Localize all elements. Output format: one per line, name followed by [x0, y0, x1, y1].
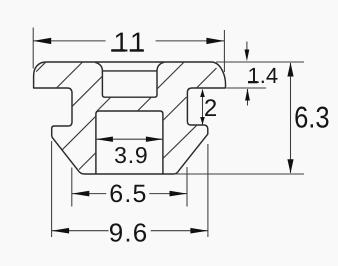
dimension 11: dimension line segments: [33, 40, 105, 42]
svg-text:6.5: 6.5: [109, 180, 147, 208]
svg-text:2: 2: [204, 95, 217, 122]
dimension 6.5: dimension line and arrowheads: [72, 193, 106, 195]
svg-text:1.4: 1.4: [248, 63, 279, 88]
dimension 6.3: bottom extension line (bottom surface level): [175, 173, 305, 175]
svg-text:9.6: 9.6: [109, 218, 149, 248]
dimension 2: [202, 90, 204, 125]
svg-text:11: 11: [114, 27, 149, 58]
dimension 6.5: extension lines: [71, 168, 73, 207]
dimension 11: right extension line: [223, 30, 225, 72]
dimension 1.4: arrow lines and heads: [246, 42, 248, 53]
dimension 11: left extension line: [32, 28, 34, 69]
profile outline: [34, 62, 226, 174]
dimension 9.6: extension lines: [51, 141, 53, 237]
hatch lines: [36, 62, 216, 169]
dimension 3.9: [96, 138, 163, 140]
central slot: [96, 111, 163, 174]
dimension 1.4: top extension line (top surface level): [216, 61, 304, 63]
dimension 11: arrowheads: [33, 38, 51, 44]
svg-text:6.3: 6.3: [294, 102, 330, 135]
dimension 1.4: bottom extension line (plate underside level): [226, 87, 266, 89]
dimension 6.3: dimension line and arrowheads: [290, 63, 292, 173]
top cavity walls with flares to top surface: [95, 62, 164, 97]
cavity ceiling line: [103, 70, 157, 72]
dimension 9.6: dimension line and arrowheads: [52, 230, 109, 232]
svg-text:3.9: 3.9: [114, 142, 148, 168]
